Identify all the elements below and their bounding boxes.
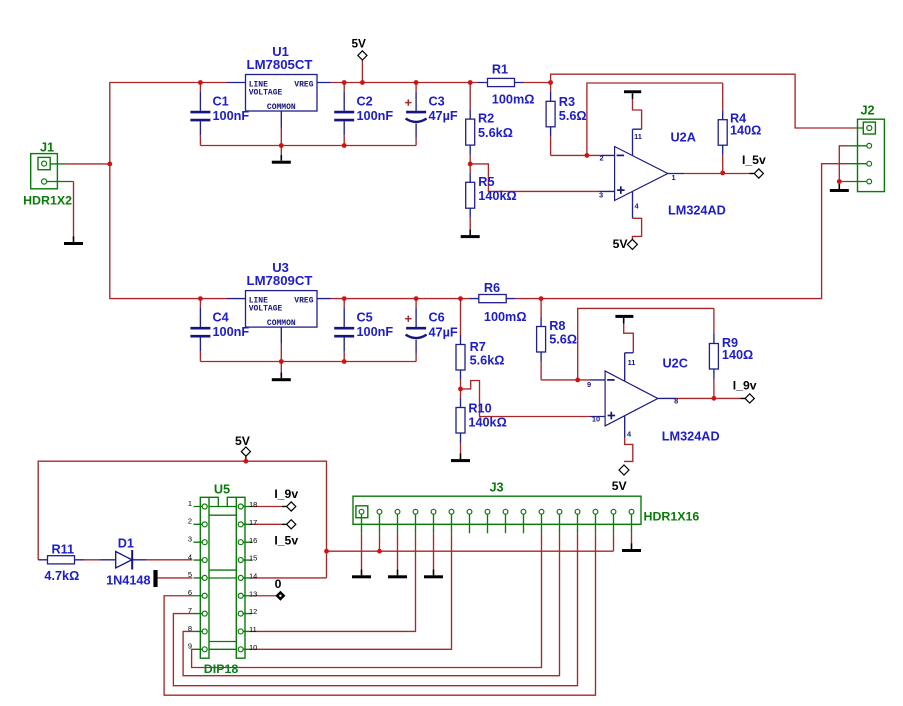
svg-text:140kΩ: 140kΩ xyxy=(478,189,516,203)
svg-text:100nF: 100nF xyxy=(357,109,394,123)
svg-text:R2: R2 xyxy=(478,112,494,126)
svg-text:R7: R7 xyxy=(470,340,486,354)
svg-text:D1: D1 xyxy=(118,537,134,551)
svg-text:5V: 5V xyxy=(613,237,629,251)
svg-text:13: 13 xyxy=(249,589,257,598)
svg-text:C3: C3 xyxy=(429,95,445,109)
svg-text:HDR1X16: HDR1X16 xyxy=(644,510,700,524)
svg-text:2: 2 xyxy=(188,517,192,526)
svg-text:11: 11 xyxy=(628,358,636,367)
svg-text:100nF: 100nF xyxy=(213,109,250,123)
svg-text:LM324AD: LM324AD xyxy=(668,203,726,217)
svg-text:11: 11 xyxy=(249,625,257,634)
svg-text:2: 2 xyxy=(599,154,603,163)
svg-text:COMMON: COMMON xyxy=(267,103,296,112)
svg-text:6: 6 xyxy=(188,588,192,597)
svg-text:U5: U5 xyxy=(214,482,230,496)
svg-text:C4: C4 xyxy=(213,311,229,325)
svg-text:9: 9 xyxy=(587,380,591,389)
svg-text:8: 8 xyxy=(188,624,192,633)
svg-text:4: 4 xyxy=(188,552,192,561)
svg-text:47µF: 47µF xyxy=(429,109,458,123)
svg-text:R6: R6 xyxy=(484,281,500,295)
svg-text:U2C: U2C xyxy=(663,357,688,371)
svg-text:5V: 5V xyxy=(235,434,251,448)
svg-text:140Ω: 140Ω xyxy=(722,348,753,362)
svg-text:100mΩ: 100mΩ xyxy=(492,92,535,106)
svg-text:14: 14 xyxy=(249,572,257,581)
svg-text:5.6Ω: 5.6Ω xyxy=(559,109,587,123)
svg-text:U2A: U2A xyxy=(671,131,696,145)
svg-text:I_5v: I_5v xyxy=(274,533,298,547)
svg-text:C5: C5 xyxy=(357,311,373,325)
svg-text:C6: C6 xyxy=(429,311,445,325)
svg-text:100nF: 100nF xyxy=(213,325,250,339)
svg-text:R11: R11 xyxy=(52,543,75,557)
svg-text:1: 1 xyxy=(671,173,675,182)
svg-text:100nF: 100nF xyxy=(357,325,394,339)
svg-text:1: 1 xyxy=(188,499,192,508)
svg-text:5.6Ω: 5.6Ω xyxy=(549,332,577,346)
svg-text:VOLTAGE: VOLTAGE xyxy=(249,88,283,97)
svg-text:VREG: VREG xyxy=(294,81,313,90)
svg-text:9: 9 xyxy=(188,642,192,651)
svg-text:5: 5 xyxy=(188,570,192,579)
svg-text:5V: 5V xyxy=(612,479,628,493)
svg-text:4.7kΩ: 4.7kΩ xyxy=(44,569,79,583)
svg-text:COMMON: COMMON xyxy=(267,319,296,328)
svg-text:7: 7 xyxy=(188,606,192,615)
svg-text:J1: J1 xyxy=(40,141,54,155)
svg-text:C2: C2 xyxy=(357,95,373,109)
svg-text:47µF: 47µF xyxy=(429,325,458,339)
svg-text:VREG: VREG xyxy=(294,297,313,306)
svg-text:C1: C1 xyxy=(213,95,229,109)
svg-text:R1: R1 xyxy=(492,63,508,77)
svg-text:8: 8 xyxy=(674,397,678,406)
svg-text:R5: R5 xyxy=(478,175,494,189)
svg-text:5.6kΩ: 5.6kΩ xyxy=(470,354,505,368)
svg-text:J2: J2 xyxy=(860,104,874,118)
svg-text:I_5v: I_5v xyxy=(742,153,766,167)
svg-text:LM7805CT: LM7805CT xyxy=(247,57,313,72)
svg-text:VOLTAGE: VOLTAGE xyxy=(249,304,283,313)
svg-text:5.6kΩ: 5.6kΩ xyxy=(478,126,513,140)
svg-text:3: 3 xyxy=(188,535,192,544)
svg-text:140kΩ: 140kΩ xyxy=(468,416,506,430)
svg-text:LM324AD: LM324AD xyxy=(662,430,720,444)
svg-text:DIP18: DIP18 xyxy=(204,662,239,676)
svg-text:R3: R3 xyxy=(559,95,575,109)
svg-text:10: 10 xyxy=(249,643,257,652)
svg-text:11: 11 xyxy=(634,132,642,141)
svg-text:LM7809CT: LM7809CT xyxy=(247,273,313,288)
svg-text:17: 17 xyxy=(249,518,257,527)
svg-text:J3: J3 xyxy=(489,480,503,494)
svg-text:15: 15 xyxy=(249,554,257,563)
svg-text:12: 12 xyxy=(249,607,257,616)
svg-text:R10: R10 xyxy=(468,402,491,416)
svg-text:3: 3 xyxy=(599,190,603,199)
svg-text:140Ω: 140Ω xyxy=(730,124,761,138)
svg-text:16: 16 xyxy=(249,536,257,545)
svg-text:18: 18 xyxy=(249,500,257,509)
svg-text:1N4148: 1N4148 xyxy=(106,573,150,587)
svg-text:R8: R8 xyxy=(549,319,565,333)
svg-text:I_9v: I_9v xyxy=(274,487,298,501)
svg-text:10: 10 xyxy=(592,415,600,424)
svg-text:I_9v: I_9v xyxy=(733,378,757,392)
svg-text:5V: 5V xyxy=(351,36,366,50)
svg-text:HDR1X2: HDR1X2 xyxy=(23,194,72,208)
svg-text:0: 0 xyxy=(275,577,282,591)
svg-text:100mΩ: 100mΩ xyxy=(484,310,527,324)
